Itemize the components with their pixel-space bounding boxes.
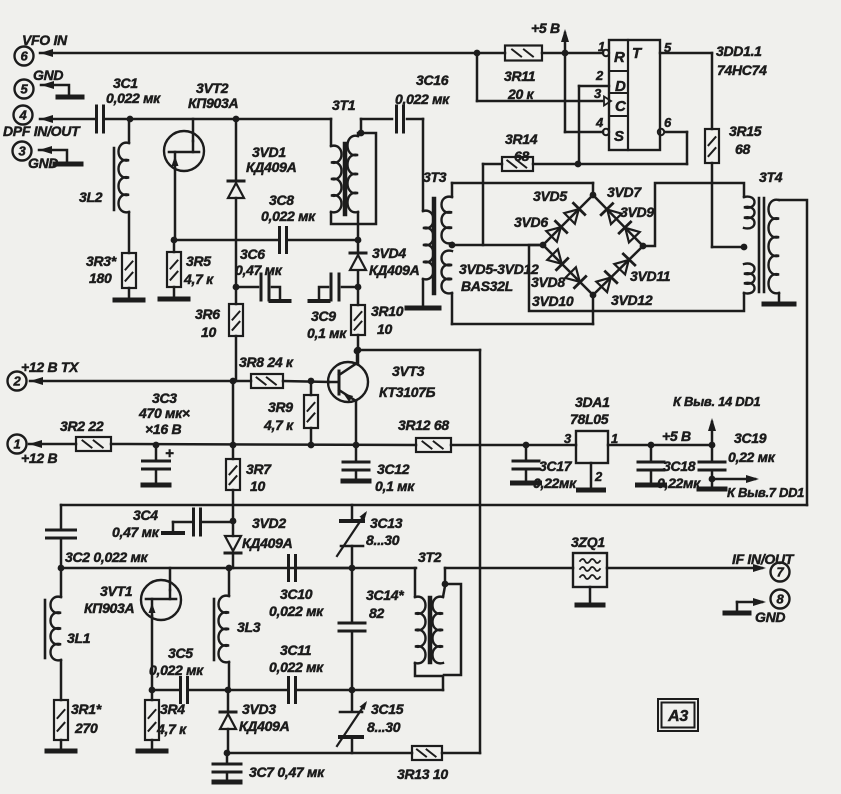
- svg-text:20 к: 20 к: [507, 86, 535, 102]
- svg-text:3: 3: [594, 86, 602, 101]
- svg-text:КД409А: КД409А: [242, 535, 293, 551]
- svg-text:К Выв. 14 DD1: К Выв. 14 DD1: [673, 394, 760, 409]
- svg-text:3C12: 3C12: [377, 461, 410, 477]
- svg-text:S: S: [614, 128, 624, 145]
- svg-text:2: 2: [13, 374, 22, 389]
- svg-text:3VD5-3VD12: 3VD5-3VD12: [459, 261, 539, 277]
- svg-text:0,22мк: 0,22мк: [657, 475, 701, 491]
- svg-text:0,022 мк: 0,022 мк: [149, 662, 204, 678]
- svg-text:3L2: 3L2: [79, 189, 103, 205]
- svg-text:2: 2: [595, 68, 604, 83]
- svg-text:КП903А: КП903А: [188, 95, 239, 111]
- svg-text:4: 4: [19, 108, 28, 123]
- svg-text:0,1 мк: 0,1 мк: [307, 325, 347, 341]
- svg-text:3ZQ1: 3ZQ1: [571, 534, 605, 550]
- svg-text:470 мк×: 470 мк×: [138, 405, 190, 421]
- svg-text:К Выв.7 DD1: К Выв.7 DD1: [727, 485, 804, 500]
- svg-text:0,47 мк: 0,47 мк: [112, 524, 160, 540]
- svg-text:3T4: 3T4: [759, 169, 783, 185]
- svg-text:3C2 0,022 мк: 3C2 0,022 мк: [65, 549, 149, 565]
- svg-text:3T1: 3T1: [332, 97, 356, 113]
- svg-text:3VD11: 3VD11: [630, 268, 671, 284]
- svg-text:VFO IN: VFO IN: [22, 32, 68, 48]
- svg-text:3C5: 3C5: [168, 645, 193, 661]
- svg-text:+: +: [165, 445, 174, 462]
- svg-text:0,022 мк: 0,022 мк: [269, 603, 324, 619]
- svg-text:3VD6: 3VD6: [514, 214, 548, 230]
- svg-text:КД409А: КД409А: [246, 159, 297, 175]
- svg-text:8...30: 8...30: [366, 532, 400, 548]
- svg-text:3VD1: 3VD1: [252, 144, 286, 160]
- svg-text:3C1: 3C1: [113, 75, 138, 91]
- svg-text:3C13: 3C13: [370, 515, 403, 531]
- svg-text:3C7 0,47 мк: 3C7 0,47 мк: [249, 764, 325, 780]
- svg-text:+5 В: +5 В: [531, 20, 560, 36]
- svg-text:82: 82: [369, 605, 384, 621]
- svg-text:3VD9: 3VD9: [620, 204, 654, 220]
- svg-text:4,7 к: 4,7 к: [183, 271, 214, 287]
- svg-text:3VT1: 3VT1: [100, 583, 133, 599]
- svg-text:0,22 мк: 0,22 мк: [728, 449, 776, 465]
- svg-text:3R3*: 3R3*: [86, 253, 117, 269]
- svg-text:3R1*: 3R1*: [71, 701, 102, 717]
- svg-text:74НС74: 74НС74: [717, 62, 767, 78]
- svg-text:4,7 к: 4,7 к: [156, 721, 187, 737]
- svg-text:КТ3107Б: КТ3107Б: [379, 384, 436, 400]
- svg-text:3L3: 3L3: [237, 619, 261, 635]
- svg-text:3C16: 3C16: [416, 72, 449, 88]
- svg-text:+12 В: +12 В: [21, 450, 57, 466]
- svg-text:3VD10: 3VD10: [532, 293, 574, 309]
- svg-text:10: 10: [201, 324, 216, 340]
- svg-text:3C6: 3C6: [240, 246, 265, 262]
- svg-text:GND: GND: [755, 609, 785, 625]
- svg-text:3DA1: 3DA1: [575, 394, 610, 410]
- svg-text:3R5: 3R5: [186, 253, 211, 269]
- svg-text:КП903А: КП903А: [84, 600, 135, 616]
- svg-text:10: 10: [377, 321, 392, 337]
- svg-text:А3: А3: [667, 708, 688, 725]
- svg-text:3R12 68: 3R12 68: [398, 417, 449, 433]
- svg-text:3C15: 3C15: [371, 701, 404, 717]
- svg-text:0,1 мк: 0,1 мк: [375, 478, 415, 494]
- svg-text:3L1: 3L1: [67, 630, 91, 646]
- svg-text:3R10: 3R10: [371, 303, 404, 319]
- svg-text:6: 6: [664, 115, 672, 130]
- svg-text:5: 5: [21, 82, 29, 97]
- svg-text:3VD7: 3VD7: [607, 184, 642, 200]
- svg-text:3T2: 3T2: [418, 549, 442, 565]
- svg-text:3C3: 3C3: [152, 390, 177, 406]
- svg-text:3R8 24 к: 3R8 24 к: [239, 354, 294, 370]
- svg-text:0,022 мк: 0,022 мк: [269, 659, 324, 675]
- svg-text:3C18: 3C18: [663, 458, 696, 474]
- svg-text:3C10: 3C10: [280, 586, 313, 602]
- svg-text:3: 3: [564, 431, 572, 446]
- svg-text:3VD2: 3VD2: [252, 515, 286, 531]
- svg-text:7: 7: [777, 565, 785, 580]
- svg-text:3VD5: 3VD5: [533, 188, 567, 204]
- svg-text:3T3: 3T3: [423, 169, 447, 185]
- svg-text:3: 3: [19, 144, 27, 159]
- svg-text:8...30: 8...30: [367, 719, 401, 735]
- svg-text:68: 68: [735, 141, 750, 157]
- svg-text:3C9: 3C9: [311, 308, 336, 324]
- svg-text:0,22мк: 0,22мк: [533, 475, 577, 491]
- svg-text:×16 В: ×16 В: [145, 421, 181, 437]
- svg-text:3C17: 3C17: [539, 458, 573, 474]
- svg-text:КД409А: КД409А: [369, 262, 420, 278]
- svg-text:C: C: [615, 98, 627, 115]
- svg-text:+5 В: +5 В: [662, 428, 691, 444]
- svg-text:3R14: 3R14: [505, 131, 538, 147]
- svg-text:GND: GND: [33, 67, 63, 83]
- svg-text:6: 6: [21, 49, 29, 64]
- svg-text:3VT2: 3VT2: [196, 80, 229, 96]
- svg-text:1: 1: [14, 437, 21, 452]
- svg-text:0,47 мк: 0,47 мк: [235, 262, 283, 278]
- svg-text:КД409А: КД409А: [239, 718, 290, 734]
- svg-text:3C14*: 3C14*: [366, 587, 404, 603]
- svg-text:3R7: 3R7: [246, 461, 272, 477]
- svg-text:270: 270: [74, 720, 98, 736]
- svg-text:0,022 мк: 0,022 мк: [261, 208, 316, 224]
- svg-text:3VD12: 3VD12: [611, 292, 653, 308]
- svg-text:3VD4: 3VD4: [372, 245, 406, 261]
- svg-text:3R15: 3R15: [729, 123, 762, 139]
- svg-text:10: 10: [250, 478, 265, 494]
- svg-text:3VT3: 3VT3: [392, 363, 425, 379]
- svg-text:3R6: 3R6: [195, 306, 220, 322]
- svg-text:R: R: [614, 49, 625, 66]
- svg-text:3C19: 3C19: [734, 430, 767, 446]
- svg-text:3C8: 3C8: [269, 192, 294, 208]
- svg-text:68: 68: [514, 148, 529, 164]
- svg-text:3VD3: 3VD3: [242, 701, 276, 717]
- svg-text:3DD1.1: 3DD1.1: [716, 43, 762, 59]
- svg-text:D: D: [615, 78, 626, 95]
- svg-text:78L05: 78L05: [570, 411, 609, 427]
- svg-text:180: 180: [89, 270, 112, 286]
- svg-text:BAS32L: BAS32L: [461, 278, 513, 294]
- svg-text:3R13 10: 3R13 10: [397, 766, 448, 782]
- svg-text:4,7 к: 4,7 к: [263, 417, 294, 433]
- svg-text:3C11: 3C11: [280, 642, 312, 658]
- svg-text:3R9: 3R9: [268, 399, 293, 415]
- svg-text:8: 8: [777, 592, 785, 607]
- svg-text:3C4: 3C4: [133, 507, 158, 523]
- svg-text:3R2 22: 3R2 22: [60, 418, 104, 434]
- svg-text:DPF IN/OUT: DPF IN/OUT: [3, 123, 81, 139]
- svg-text:0,022 мк: 0,022 мк: [106, 90, 161, 106]
- svg-text:+12 В TX: +12 В TX: [21, 359, 80, 375]
- svg-text:1: 1: [611, 431, 618, 446]
- svg-text:0,022 мк: 0,022 мк: [395, 91, 450, 107]
- svg-text:3R11: 3R11: [504, 68, 536, 84]
- svg-text:4: 4: [595, 115, 604, 130]
- svg-text:2: 2: [594, 469, 603, 484]
